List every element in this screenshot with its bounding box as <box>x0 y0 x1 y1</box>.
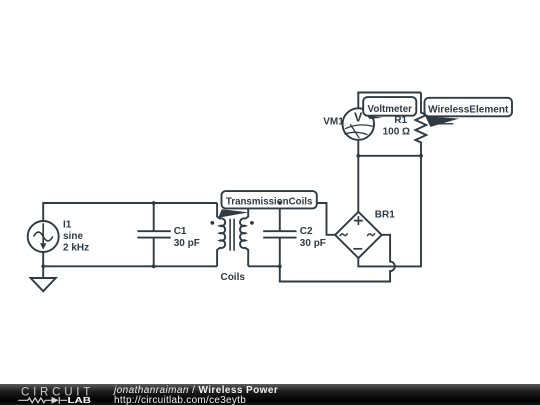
wire: secondary top rail to bridge AC left <box>248 203 335 235</box>
callout flag Voltmeter <box>363 97 416 119</box>
svg-text:V: V <box>354 111 363 125</box>
svg-text:BR1: BR1 <box>375 210 395 221</box>
wire: top rail from I1 to transformer primary <box>43 203 217 221</box>
transformer Coils: primary winding <box>217 203 225 266</box>
svg-text:sine: sine <box>63 231 83 242</box>
svg-text:2 kHz: 2 kHz <box>63 242 89 253</box>
callout flag TransmissionCoils <box>218 191 316 218</box>
voltmeter VM1 symbol <box>343 108 375 155</box>
svg-text:http://circuitlab.com/ce3eytb: http://circuitlab.com/ce3eytb <box>114 395 246 405</box>
svg-text:LAB: LAB <box>68 395 92 405</box>
capacitor C2 <box>263 203 296 266</box>
svg-text:I1: I1 <box>63 219 72 230</box>
node: C2 top junction (drawn over callout) <box>278 201 282 205</box>
wire: bridge DC- around right side up to measurement rail <box>358 156 421 267</box>
svg-text:100 Ω: 100 Ω <box>383 126 410 137</box>
transformer Coils: secondary winding <box>240 203 248 266</box>
svg-text:VM1: VM1 <box>323 117 344 128</box>
wire: measurement rail between voltmeter and R1 <box>358 155 421 157</box>
bridge BR1 AC tilde right <box>367 233 375 236</box>
svg-text:Voltmeter: Voltmeter <box>368 103 412 115</box>
svg-text:TransmissionCoils: TransmissionCoils <box>226 195 313 207</box>
wire: voltmeter to R1 top rail <box>358 93 421 109</box>
svg-text:30 pF: 30 pF <box>300 238 326 249</box>
node: transformer secondary polarity dot <box>250 221 254 225</box>
transformer Coils: core <box>230 219 234 251</box>
node: I1 ground junction <box>41 264 45 268</box>
current source I1 arrowhead <box>40 243 46 249</box>
bridge BR1 plus sign <box>354 216 363 225</box>
node: C1 bottom junction <box>152 264 156 268</box>
bridge BR1 minus sign <box>353 248 362 250</box>
ground <box>42 266 44 278</box>
callout flag WirelessElement <box>425 98 513 127</box>
svg-text:C1: C1 <box>174 226 187 237</box>
resistor R1 <box>415 93 426 156</box>
wire: primary bottom rail <box>43 252 217 266</box>
bridge BR1 AC tilde left <box>340 233 348 236</box>
capacitor C1 <box>137 203 170 266</box>
wire: C2 bottom to bridge AC right with hop over DC wire <box>280 235 395 282</box>
bridge rectifier BR1 diamond <box>335 212 382 258</box>
svg-text:WirelessElement: WirelessElement <box>428 103 509 115</box>
svg-text:C2: C2 <box>300 226 313 237</box>
CircuitLab logo resistor-diode line <box>18 397 67 404</box>
wire: bridge DC+ up to measurement rail <box>357 156 359 212</box>
node: C2 bottom junction <box>278 265 282 269</box>
node: voltmeter bottom junction <box>356 154 360 158</box>
svg-text:Coils: Coils <box>220 272 245 283</box>
CircuitLab logo diode triangle <box>52 397 59 404</box>
node: C1 top junction <box>152 201 156 205</box>
current source I1 symbol <box>28 221 59 252</box>
wire: secondary bottom rail <box>248 265 280 267</box>
node: transformer primary polarity dot <box>211 221 215 225</box>
node: R1 bottom junction <box>419 154 423 158</box>
svg-text:30 pF: 30 pF <box>174 238 200 249</box>
